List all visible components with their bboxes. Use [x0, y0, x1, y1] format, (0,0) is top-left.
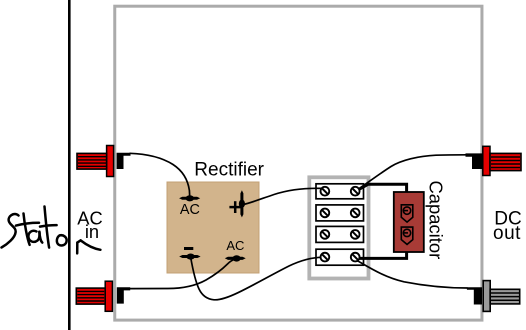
svg-text:Capacitor: Capacitor	[426, 181, 447, 260]
wire W6: terminal block row4 right to J4	[358, 261, 468, 288]
terminal block outline	[309, 177, 368, 278]
label +	[229, 201, 241, 213]
svg-text:out: out	[493, 223, 521, 244]
terminal block row 1 bar	[316, 184, 364, 199]
terminal block screws row 1	[321, 187, 360, 196]
terminal block screws row 4	[321, 253, 360, 262]
capacitor C1	[394, 192, 424, 252]
rectifier terminal AC1 (top-left)	[179, 195, 200, 201]
wire W5: terminal block row1 right to J3	[357, 155, 467, 190]
wire W4: J2 to rectifier AC bottom	[130, 259, 237, 289]
wire W3: rectifier - to terminal block row4 left	[191, 257, 323, 300]
connector J1 (AC in, top-left)	[77, 146, 131, 177]
handwritten label "Stator"	[2, 207, 67, 248]
terminal block screws row 3	[321, 230, 360, 239]
wire W7: terminal block row1 right to capacitor top (thick)	[358, 184, 407, 192]
label -	[184, 247, 193, 250]
rectifier terminal - (bottom-left)	[179, 254, 200, 260]
svg-text:in: in	[85, 221, 99, 242]
stator boundary line	[68, 0, 71, 330]
wire W8: terminal block row4 right to capacitor bottom (thick)	[356, 252, 407, 259]
terminal block row 4 bar	[316, 249, 364, 265]
terminal block row 2 bar	[316, 205, 364, 221]
rectifier terminal + (pin)	[239, 190, 245, 217]
rectifier terminal AC2 (bottom-right)	[225, 255, 246, 261]
terminal block screws row 2	[321, 209, 360, 218]
svg-text:AC: AC	[226, 238, 244, 253]
connector J3 (DC out, top-right)	[466, 146, 522, 175]
connector J4 (DC out, bottom-right)	[467, 281, 520, 312]
hand-drawn arrow under "in"	[77, 240, 100, 253]
svg-text:AC: AC	[180, 202, 200, 218]
enclosure box	[115, 6, 482, 320]
wire W1: J1 to rectifier AC top	[130, 153, 190, 196]
svg-text:Rectifier: Rectifier	[194, 160, 264, 181]
rectifier body	[167, 182, 259, 273]
wire W2: rectifier + to terminal block row1 left	[243, 188, 322, 204]
terminal block row 3 bar	[316, 226, 364, 242]
connector J2 (AC in, bottom-left)	[76, 281, 130, 311]
